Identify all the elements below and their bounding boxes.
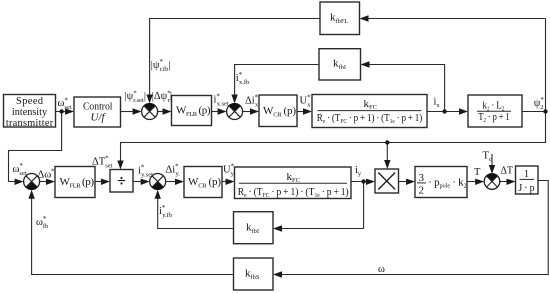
fraction bar inertia bbox=[520, 178, 535, 180]
arrow into multiplier top bbox=[384, 160, 390, 169]
block k_fbFL bbox=[320, 2, 360, 35]
svg-text:U/f: U/f bbox=[91, 113, 107, 124]
wire iy tap to k_fbI lower bbox=[281, 228, 364, 230]
wire k_fbS output to speed summer bbox=[32, 198, 234, 275]
svg-text:intensity: intensity bbox=[12, 107, 48, 118]
node i_y junction bbox=[361, 179, 365, 183]
wire FC block to rotor block (i_x) bbox=[427, 111, 461, 113]
arrow into k_fbS right side bbox=[273, 271, 282, 277]
block multiplier bbox=[375, 169, 399, 193]
arrow into W_FLR bbox=[163, 108, 172, 114]
summer S5 torque error bbox=[484, 174, 500, 190]
node i_x junction bbox=[442, 109, 446, 113]
svg-text:T2 · p + 1: T2 · p + 1 bbox=[478, 112, 510, 124]
arrow into k_fbI lower right side bbox=[273, 225, 282, 231]
label speed intensity transmitter text bbox=[6, 96, 54, 129]
arrow into W_CR lower bbox=[175, 179, 184, 185]
arrow into control bbox=[65, 108, 74, 114]
arrow into torque summer left bbox=[475, 179, 484, 185]
fraction bar rotor block bbox=[477, 110, 511, 112]
block k_fbS bbox=[234, 258, 274, 290]
svg-text:ω*fb: ω*fb bbox=[36, 215, 48, 230]
block rotor flux k2L2 bbox=[468, 95, 522, 127]
svg-text:transmitter: transmitter bbox=[6, 118, 54, 129]
svg-text:ψ*2: ψ*2 bbox=[534, 96, 545, 111]
wire multiplier to torque gain bbox=[399, 181, 408, 183]
block W_FLR lower bbox=[55, 167, 95, 198]
arrow into W_CR bbox=[250, 108, 259, 114]
svg-text:2: 2 bbox=[419, 184, 425, 196]
svg-text:ω: ω bbox=[378, 264, 385, 275]
svg-text:k2 · L2: k2 · L2 bbox=[483, 100, 505, 112]
summer S1 flux error bbox=[142, 103, 158, 119]
wire iy tap down bbox=[363, 182, 365, 229]
block torque gain 3/2 p k2 bbox=[415, 167, 467, 198]
wire torque gain to torque summer (T) bbox=[467, 181, 477, 183]
svg-text:Control: Control bbox=[83, 101, 113, 113]
wire control to flux summer bbox=[121, 111, 135, 113]
wire k_fbI output to ix summer bbox=[235, 65, 319, 97]
arrow into iy summer left bbox=[141, 179, 150, 185]
wire speed transmitter to control bbox=[56, 111, 67, 113]
svg-text:Re · (TFC · p + 1) · (T1e · p: Re · (TFC · p + 1) · (T1e · p + 1) bbox=[238, 186, 349, 199]
fraction bar FC upper bbox=[318, 110, 422, 112]
arrow into rotor block bbox=[459, 108, 468, 114]
node omega_set junction bbox=[59, 109, 63, 113]
node psi2 lower branch junction bbox=[385, 140, 389, 144]
arrow into k_fbFL right side bbox=[360, 15, 369, 21]
svg-text:Δi*x: Δi*x bbox=[245, 94, 259, 109]
arrow into divider left bbox=[101, 179, 110, 185]
fraction bar FC lower bbox=[239, 182, 347, 184]
arrow into flux summer top bbox=[146, 95, 152, 104]
svg-text:|Δψ*r|: |Δψ*r| bbox=[152, 89, 172, 104]
wire W_FLR lower to divider bbox=[95, 181, 103, 183]
svg-text:J · p: J · p bbox=[518, 183, 534, 194]
block W_CR upper bbox=[259, 95, 297, 127]
arrow into ix summer top bbox=[231, 95, 237, 104]
wire psi2 top feedback to k_fbFL bbox=[367, 18, 546, 20]
wire iy summer to W_CR lower bbox=[166, 181, 177, 183]
block inertia 1/Jp bbox=[516, 166, 539, 194]
block k_fbI upper bbox=[319, 49, 361, 80]
wire k_fbI lower output to iy summer bbox=[158, 198, 234, 229]
arrow into torque summer top (Tc) bbox=[489, 165, 495, 174]
wire rotor block to psi2 node bbox=[522, 111, 546, 113]
svg-text:|ψ*r.fb|: |ψ*r.fb| bbox=[151, 58, 171, 73]
arrow into multiplier left bbox=[366, 179, 375, 185]
block FC transfer function lower bbox=[235, 167, 352, 199]
arrow into divider top bbox=[117, 161, 123, 170]
arrow into torque gain bbox=[406, 179, 415, 185]
arrow into iy summer bottom bbox=[155, 190, 161, 199]
wire torque summer to inertia block bbox=[500, 181, 508, 183]
wire flux summer to W_FLR bbox=[158, 111, 164, 113]
summer S3 iy error bbox=[150, 174, 166, 190]
svg-text:÷: ÷ bbox=[117, 173, 126, 190]
wire W_FLR to ix summer bbox=[212, 111, 220, 113]
wire k_fbFL output to flux summer bbox=[150, 19, 320, 97]
wire speed summer to W_FLR lower bbox=[40, 181, 48, 183]
wire omega_set branch down-left to speed summer bbox=[9, 112, 62, 182]
svg-text:T: T bbox=[474, 167, 481, 178]
arrow into speed summer left bbox=[15, 179, 24, 185]
arrow into inertia block bbox=[507, 179, 516, 185]
wire psi2 node down and across to divider bbox=[121, 112, 546, 163]
arrow into k_fbI right side bbox=[361, 61, 370, 67]
block W_FLR upper bbox=[172, 96, 212, 126]
arrow into flux summer left bbox=[133, 108, 142, 114]
wire Tc input bbox=[491, 154, 493, 167]
wire ix summer to W_CR bbox=[243, 111, 252, 113]
arrow into FC block lower bbox=[226, 179, 235, 185]
block control U/f bbox=[74, 97, 121, 127]
svg-text:U*y: U*y bbox=[223, 163, 235, 178]
svg-text:Δi*y.: Δi*y. bbox=[166, 163, 181, 178]
multiplier X glyph bbox=[378, 173, 395, 190]
svg-text:U*x: U*x bbox=[300, 94, 312, 109]
wire FC block lower to multiplier (i_y) bbox=[351, 181, 368, 183]
summer S4 speed error bbox=[24, 174, 40, 190]
svg-text:Speed: Speed bbox=[16, 96, 43, 107]
svg-text:ΔT: ΔT bbox=[501, 166, 514, 177]
block speed intensity transmitter bbox=[4, 95, 56, 128]
arrow into W_FLR lower bbox=[46, 179, 55, 185]
svg-text:1: 1 bbox=[524, 169, 529, 180]
block FC transfer function upper bbox=[312, 95, 427, 128]
wire ix tap up to k_fbI bbox=[368, 65, 445, 112]
wire W_CR lower to FC block lower bbox=[222, 181, 227, 183]
block k_fbI lower bbox=[234, 212, 274, 244]
svg-text:Re · (TFC · p + 1) · (T1e · p: Re · (TFC · p + 1) · (T1e · p + 1) bbox=[317, 112, 423, 125]
node psi2 junction bbox=[543, 109, 547, 113]
wire W_CR to FC block bbox=[297, 111, 305, 113]
arrow into ix summer left bbox=[218, 108, 227, 114]
wire psi2 node up bbox=[545, 19, 547, 112]
block W_CR lower bbox=[184, 167, 222, 198]
wire divider to iy summer bbox=[133, 181, 142, 183]
svg-text:3: 3 bbox=[419, 172, 425, 184]
block divider bbox=[110, 170, 133, 193]
arrow into speed summer bottom bbox=[28, 190, 34, 199]
arrow into FC block bbox=[303, 108, 312, 114]
wire psi2 branch down into multiplier bbox=[386, 143, 388, 163]
summer S2 ix error bbox=[227, 103, 243, 119]
wire inertia output omega down and across to k_fbS bbox=[281, 181, 548, 275]
